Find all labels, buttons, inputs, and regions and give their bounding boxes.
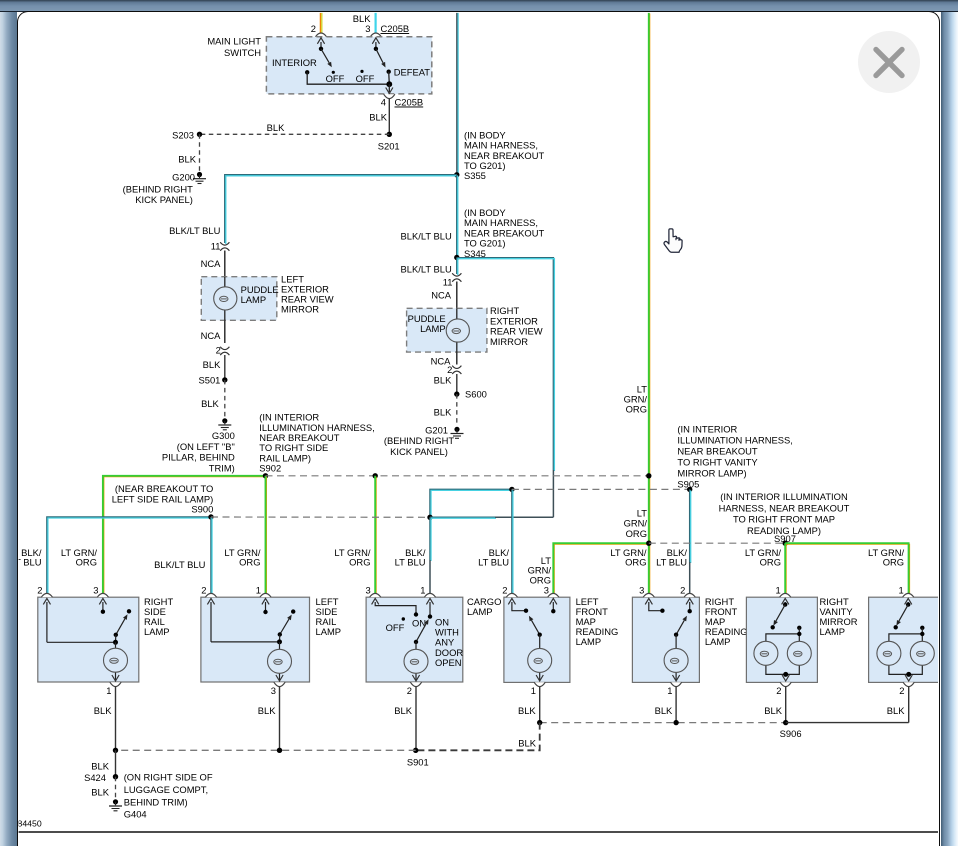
label LT GRN/ORG w8 <box>528 555 552 585</box>
svg-text:1: 1 <box>531 685 536 696</box>
wire BLK S424 to G404 dashed <box>91 777 115 799</box>
cargo lamp box <box>365 585 501 697</box>
wire BLK/LT BLU S345 branch right and down <box>457 258 555 471</box>
svg-text:1: 1 <box>106 685 111 696</box>
wire BLK left rail lamp to bus <box>258 687 280 751</box>
svg-text:11: 11 <box>443 277 453 288</box>
wire NCA into right puddle lamp <box>431 282 457 309</box>
svg-text:ORG: ORG <box>625 557 646 568</box>
wire NCA below left puddle lamp <box>201 320 225 343</box>
svg-text:3: 3 <box>271 685 276 696</box>
label BLK/LT BLU w10 <box>656 547 687 568</box>
svg-text:MIRROR: MIRROR <box>281 303 319 314</box>
svg-text:G201: G201 <box>425 424 448 435</box>
svg-text:LT BLU: LT BLU <box>656 557 687 568</box>
svg-text:G300: G300 <box>212 430 235 441</box>
wire NCA below right puddle lamp <box>431 352 457 366</box>
svg-text:(IN INTERIOR: (IN INTERIOR <box>677 423 737 434</box>
svg-text:BLK: BLK <box>394 705 412 716</box>
svg-text:S600: S600 <box>465 388 487 399</box>
svg-text:TRIM): TRIM) <box>209 462 235 473</box>
ground G201 <box>384 424 464 457</box>
wire BLK vanity lamp to S906 <box>764 687 785 723</box>
lower ground bus dashed with nodes <box>113 748 416 753</box>
svg-text:2: 2 <box>407 685 412 696</box>
wire BLK second vanity to S906 solid <box>786 722 909 724</box>
node S600 <box>454 388 487 399</box>
switch throw DEFEAT side <box>356 38 431 84</box>
node S424 <box>84 772 118 783</box>
svg-text:BLK: BLK <box>655 705 673 716</box>
node S201 <box>378 132 400 152</box>
right front map reading lamp box <box>632 585 747 697</box>
label LT GRN/ORG w12 <box>868 547 905 568</box>
left exterior mirror box with puddle lamp DS1 <box>201 273 333 320</box>
mouse cursor hand pointer <box>664 229 682 252</box>
svg-text:LAMP: LAMP <box>420 323 446 334</box>
node S345 and harness note <box>401 207 545 260</box>
svg-text:OFF: OFF <box>386 622 405 633</box>
ground G200 <box>123 172 206 206</box>
label LT GRN/ORG w4 <box>224 547 261 568</box>
svg-text:G404: G404 <box>124 809 147 820</box>
ground G404 and note <box>109 772 213 820</box>
svg-text:1: 1 <box>667 685 672 696</box>
wire S907 bus dashed <box>649 542 785 544</box>
svg-text:S905: S905 <box>677 478 699 489</box>
svg-text:1: 1 <box>420 585 425 596</box>
wire BLK right rail lamp to bus <box>94 687 116 751</box>
wire BLK S203 to G200 <box>178 134 199 171</box>
wire S905 bus dashed <box>512 488 690 490</box>
connector C205B pins 2 and 3 <box>311 23 409 37</box>
node S501 <box>198 374 227 385</box>
wire BLK/LT BLU S355 to S345 <box>457 175 458 259</box>
svg-text:LAMP: LAMP <box>467 606 493 617</box>
svg-text:NEAR BREAKOUT: NEAR BREAKOUT <box>677 445 757 456</box>
node on S905 line at left map lamp <box>509 487 514 492</box>
wire LT GRN/ORG main trunk from top <box>649 13 650 598</box>
svg-text:LT BLU: LT BLU <box>11 557 42 568</box>
node on S902 bus for cargo lamp <box>373 473 378 478</box>
svg-text:1: 1 <box>256 585 261 596</box>
svg-text:TO RIGHT VANITY: TO RIGHT VANITY <box>677 456 758 467</box>
svg-text:LAMP: LAMP <box>144 626 170 637</box>
label LT GRN/ORG w2 <box>61 547 98 568</box>
node S203 <box>172 129 202 140</box>
wire LT GRN/ORG to cargo lamp pin 3 <box>375 476 376 598</box>
svg-text:LUGGAGE COMPT,: LUGGAGE COMPT, <box>124 784 208 795</box>
svg-text:1: 1 <box>775 585 780 596</box>
svg-text:2: 2 <box>216 345 221 356</box>
svg-text:S355: S355 <box>464 170 486 181</box>
label LT GRN/ORG w5 <box>334 547 371 568</box>
svg-text:OFF: OFF <box>356 73 375 84</box>
svg-text:(ON RIGHT SIDE OF: (ON RIGHT SIDE OF <box>124 772 213 783</box>
svg-text:BLK: BLK <box>178 154 196 165</box>
svg-text:S902: S902 <box>259 463 281 474</box>
wire LT GRN/ORG S907 to vanity lamp 1 <box>785 543 786 598</box>
svg-text:BLK: BLK <box>91 787 109 798</box>
svg-text:BLK: BLK <box>434 407 452 418</box>
svg-text:2: 2 <box>37 585 42 596</box>
upper ground bus dashed with nodes <box>537 720 786 725</box>
svg-text:PILLAR, BEHIND: PILLAR, BEHIND <box>162 452 235 463</box>
svg-text:2: 2 <box>776 685 781 696</box>
wire BLK/LT BLU link S905-line to cargo node <box>430 489 513 518</box>
svg-text:KICK PANEL): KICK PANEL) <box>390 446 448 457</box>
svg-text:MIRROR: MIRROR <box>490 336 528 347</box>
node at cargo BLK/LT BLU junction <box>427 515 553 520</box>
right side rail lamp box <box>37 585 173 697</box>
wire BLK/LT BLU S905 to right map lamp pin 2 <box>690 489 691 596</box>
svg-text:INTERIOR: INTERIOR <box>272 57 317 68</box>
left front map reading lamp box <box>502 585 618 697</box>
svg-text:ORG: ORG <box>626 404 647 415</box>
wire LT GRN/ORG S902 to right side rail lamp <box>103 476 267 598</box>
main light switch U1 box <box>207 36 431 94</box>
wire BLK to S501 <box>203 355 225 380</box>
wire BLK right map lamp to bus <box>655 687 677 723</box>
svg-text:S424: S424 <box>84 772 106 783</box>
svg-text:BEHIND TRIM): BEHIND TRIM) <box>124 796 188 807</box>
label BLK/LT BLU left <box>169 225 220 236</box>
wire BLK S600 to G201 dashed <box>434 394 457 426</box>
left side rail lamp box <box>201 585 341 697</box>
wire LT GRN/ORG S907 to vanity lamp 2 <box>785 543 909 598</box>
node S906 <box>780 720 802 739</box>
wire BLK/LT BLU down to cargo lamp pin 1 <box>430 517 431 597</box>
svg-text:3: 3 <box>93 585 98 596</box>
svg-text:BLK/LT BLU: BLK/LT BLU <box>169 225 220 236</box>
svg-text:BLK: BLK <box>258 705 276 716</box>
svg-text:LT BLU: LT BLU <box>395 557 426 568</box>
node S355 and harness note <box>454 129 544 181</box>
svg-text:S901: S901 <box>407 757 429 768</box>
svg-text:S900: S900 <box>191 504 213 515</box>
svg-text:BLK: BLK <box>94 705 112 716</box>
wire BLK/LT BLU to left map lamp pin 2 <box>512 489 513 597</box>
wire S902 bus dashed to green trunk <box>266 473 652 478</box>
wire BLK second vanity lamp down <box>887 687 909 723</box>
wire BLK/LT BLU S355 to left puddle lamp <box>225 175 458 244</box>
svg-text:4: 4 <box>381 97 386 108</box>
svg-text:(BEHIND RIGHT: (BEHIND RIGHT <box>123 183 194 194</box>
svg-text:11: 11 <box>211 240 221 251</box>
connector pin 2 right mirror <box>447 364 461 375</box>
svg-text:ORG: ORG <box>626 528 647 539</box>
svg-text:OPEN: OPEN <box>435 657 462 668</box>
svg-text:ORG: ORG <box>883 557 904 568</box>
diagram bottom frame line <box>18 831 939 833</box>
node S901 <box>407 748 429 768</box>
wire BLK riser bus dashed bold <box>416 723 540 751</box>
svg-text:ORG: ORG <box>349 557 370 568</box>
svg-text:2: 2 <box>311 23 316 34</box>
wire BLK S201 to S203 dashed <box>200 122 390 134</box>
right exterior mirror box with puddle lamp DS2 <box>407 305 543 352</box>
svg-text:BLK: BLK <box>91 761 109 772</box>
wire BLK to S600 <box>434 374 457 394</box>
svg-text:2: 2 <box>502 585 507 596</box>
switch throw INTERIOR side <box>305 38 389 84</box>
svg-text:BLK: BLK <box>203 359 221 370</box>
svg-text:S203: S203 <box>172 129 194 140</box>
svg-text:HARNESS, NEAR BREAKOUT: HARNESS, NEAR BREAKOUT <box>719 502 850 513</box>
svg-text:KICK PANEL): KICK PANEL) <box>135 194 193 205</box>
label BLK/LT BLU w1 <box>11 547 42 568</box>
wire LT GRN/ORG S902 to left side rail lamp <box>266 476 267 598</box>
svg-text:LT BLU: LT BLU <box>478 557 509 568</box>
label LT GRN/ORG w9 <box>610 547 647 568</box>
svg-text:3: 3 <box>639 585 644 596</box>
node S902 and harness note <box>259 412 374 479</box>
wire NCA into left puddle lamp <box>201 251 225 277</box>
right vanity mirror lamp box <box>746 585 857 697</box>
svg-text:LAMP: LAMP <box>705 636 731 647</box>
svg-text:(BEHIND RIGHT: (BEHIND RIGHT <box>384 435 455 446</box>
svg-text:LAMP: LAMP <box>820 626 846 637</box>
svg-text:3: 3 <box>544 585 549 596</box>
svg-text:3: 3 <box>365 585 370 596</box>
wire BLK bus to S424 <box>91 750 115 776</box>
node S905 and harness note <box>677 423 792 492</box>
second vanity mirror lamp box <box>869 585 940 697</box>
svg-text:DEFEAT: DEFEAT <box>394 66 431 77</box>
svg-text:ILLUMINATION HARNESS,: ILLUMINATION HARNESS, <box>677 434 792 445</box>
svg-text:BLK/LT BLU: BLK/LT BLU <box>401 264 452 275</box>
wire BLK/LT BLU S345 to right puddle lamp <box>401 258 458 276</box>
svg-text:BLK: BLK <box>764 705 782 716</box>
svg-text:SWITCH: SWITCH <box>224 47 261 58</box>
connector pin 2 left mirror <box>216 345 230 356</box>
svg-text:BLK: BLK <box>201 398 219 409</box>
svg-text:NCA: NCA <box>431 289 452 300</box>
svg-text:ORG: ORG <box>760 557 781 568</box>
svg-text:BLK: BLK <box>267 122 285 133</box>
svg-text:BLK: BLK <box>518 738 536 749</box>
svg-text:3: 3 <box>365 23 370 34</box>
svg-text:S906: S906 <box>780 728 802 739</box>
wire BLK/LT BLU dark segment to cargo junction <box>552 470 554 517</box>
ground G300 <box>162 418 235 473</box>
wire S900 bus dashed to cargo node <box>211 516 430 518</box>
label BLK/LT BLU w7 <box>478 547 509 568</box>
connector pin 11 left mirror <box>211 240 230 251</box>
svg-text:LAMP: LAMP <box>576 636 602 647</box>
svg-text:2: 2 <box>899 685 904 696</box>
wire ORG/YEL to switch pin 2 <box>320 13 321 34</box>
svg-text:TO RIGHT FRONT MAP: TO RIGHT FRONT MAP <box>733 514 835 525</box>
wire BLK/LT BLU S900 to left rail lamp pin 2 <box>211 517 212 598</box>
svg-text:NCA: NCA <box>201 330 222 341</box>
svg-text:G200: G200 <box>172 172 195 183</box>
svg-text:2: 2 <box>201 585 206 596</box>
wire BLK left map lamp to bus <box>518 687 540 723</box>
svg-text:BLK: BLK <box>887 705 905 716</box>
svg-text:ORG: ORG <box>239 557 260 568</box>
svg-text:LAMP: LAMP <box>316 626 342 637</box>
switch output junction to pin 4 <box>386 81 393 93</box>
label LT GRN/ORG w11 <box>745 547 782 568</box>
svg-text:1: 1 <box>898 585 903 596</box>
svg-text:S201: S201 <box>378 141 400 152</box>
svg-text:READING LAMP): READING LAMP) <box>747 525 821 536</box>
svg-text:C205B: C205B <box>395 97 424 108</box>
svg-text:MIRROR LAMP): MIRROR LAMP) <box>677 467 746 478</box>
wire BLK cargo lamp to S901 <box>394 687 416 751</box>
svg-text:LAMP: LAMP <box>241 294 267 305</box>
svg-text:84450: 84450 <box>18 819 42 829</box>
svg-text:MAIN LIGHT: MAIN LIGHT <box>207 36 261 47</box>
label BLK/LT BLU w3 <box>154 559 205 570</box>
wire BLK pin4 to S201 <box>369 99 389 135</box>
wire BLK/LT BLU vertical from top to S355 <box>457 13 458 175</box>
label LT GRN/ORG trunk lower <box>624 507 648 538</box>
node on trunk at S907 bus <box>646 541 651 546</box>
label BLK/LT BLU w6 <box>395 547 426 568</box>
connector C205B pin 4 <box>381 94 423 107</box>
node S907 and harness note <box>719 491 850 546</box>
svg-text:(IN INTERIOR ILLUMINATION: (IN INTERIOR ILLUMINATION <box>720 491 847 502</box>
label LT GRN/ORG trunk upper <box>624 383 648 414</box>
node S900 and note <box>112 483 214 520</box>
svg-text:ORG: ORG <box>76 557 97 568</box>
svg-text:OFF: OFF <box>326 73 345 84</box>
svg-text:BLK/LT BLU: BLK/LT BLU <box>154 559 205 570</box>
wire BLK/LT BLU S900 from right rail lamp <box>47 517 212 598</box>
connector pin 11 right mirror <box>443 273 462 287</box>
wire BLK S501 to G300 dashed <box>201 380 225 418</box>
wire LT GRN/ORG trunk to left map lamp pin 3 <box>553 543 650 598</box>
svg-text:BLK: BLK <box>518 705 536 716</box>
wire LT BLU (BLK) to switch pin 3 <box>353 13 376 34</box>
svg-text:2: 2 <box>447 364 452 375</box>
svg-text:(ON LEFT "B": (ON LEFT "B" <box>177 441 235 452</box>
svg-text:NCA: NCA <box>201 258 222 269</box>
svg-text:C205B: C205B <box>381 23 410 34</box>
svg-text:S501: S501 <box>198 374 220 385</box>
diagram id 84450 <box>18 819 42 829</box>
svg-text:BLK: BLK <box>369 112 387 123</box>
close button X icon <box>876 50 902 76</box>
svg-text:2: 2 <box>680 585 685 596</box>
svg-text:BLK: BLK <box>434 375 452 386</box>
svg-text:BLK/LT BLU: BLK/LT BLU <box>401 230 452 241</box>
